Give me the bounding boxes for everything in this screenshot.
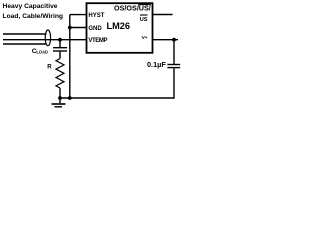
svg-text:LM26: LM26 <box>107 21 131 31</box>
node: VTEMP / C_LOAD junction <box>58 38 62 42</box>
resistor R <box>56 59 64 89</box>
svg-text:0.1µF: 0.1µF <box>147 60 166 69</box>
capacitor C_LOAD <box>53 48 67 51</box>
op-amp U1 LM26 box <box>87 3 153 53</box>
wire: resistor to bottom rail <box>59 88 61 98</box>
svg-text:Load, Cable/Wiring: Load, Cable/Wiring <box>3 13 64 20</box>
cable end ellipse <box>45 30 50 46</box>
wire: HYST/GND ground tie vertical <box>69 15 71 98</box>
node: resistor / ground junction <box>58 96 62 100</box>
overline over US/ <box>138 4 150 6</box>
cable: bottom conductor line <box>3 43 47 45</box>
wire: OS output stub <box>153 14 173 16</box>
wire: C_LOAD to resistor <box>59 52 61 59</box>
node: GND junction <box>68 26 72 30</box>
wire: V+ down to bypass cap <box>173 40 175 64</box>
svg-text:Heavy Capacitive: Heavy Capacitive <box>3 3 58 10</box>
svg-text:VTEMP: VTEMP <box>88 38 107 44</box>
svg-text:V+: V+ <box>142 35 148 41</box>
wire: V+ stub <box>153 39 179 41</box>
wire: cable center conductor to VTEMP pin <box>3 39 87 41</box>
svg-text:US: US <box>140 17 148 23</box>
wire: bypass cap to bottom rail <box>173 68 175 98</box>
svg-text:HYST: HYST <box>88 13 104 19</box>
wire: GND stub <box>70 27 87 29</box>
wire: HYST stub <box>70 14 87 16</box>
ground <box>52 98 66 107</box>
overline over US <box>140 14 148 16</box>
cable: top conductor line <box>3 33 47 35</box>
wire: bottom rail <box>60 97 174 99</box>
wire: junction down to C_LOAD <box>59 40 61 48</box>
svg-text:R: R <box>47 64 52 70</box>
node: ground-tie junction on bottom rail <box>68 96 72 100</box>
capacitor C2 0.1uF <box>167 65 180 68</box>
svg-text:GND: GND <box>88 26 102 32</box>
node: V+ / bypass cap junction <box>172 38 176 42</box>
svg-text:LOAD: LOAD <box>36 50 48 55</box>
